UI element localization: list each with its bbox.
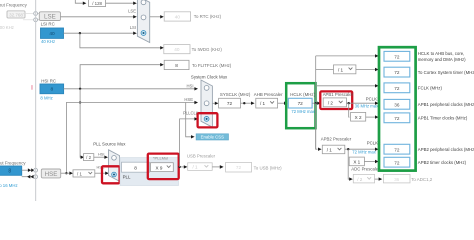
wire: AHB prescaler to HCLK — [278, 102, 288, 105]
node: APB1 timer clocks box 72 — [384, 113, 468, 123]
svg-text:To USB (MHz): To USB (MHz) — [254, 165, 283, 170]
svg-text:/ 2: / 2 — [328, 101, 334, 106]
node: PLL Source Mux label — [93, 141, 126, 146]
wire: PLLCLK up to system clock mux — [180, 111, 199, 167]
divider HSI /2 box — [84, 154, 94, 161]
svg-text:72: 72 — [227, 101, 233, 106]
wire: system clock mux output to SYSCLK — [212, 102, 218, 105]
node: LSI junction — [79, 32, 81, 34]
node: To ADC value box — [383, 174, 432, 183]
wire: HSI down to PLL prediv /2 — [80, 89, 84, 159]
svg-text:LSE: LSE — [128, 9, 136, 14]
node: PLLMul label — [153, 155, 168, 160]
svg-text:72: 72 — [394, 160, 400, 165]
svg-text:*PLLMul: *PLLMul — [153, 155, 168, 160]
wire: APB2 timer X1 branch and ADC branch — [348, 149, 353, 181]
oscillator LSE box — [38, 12, 61, 21]
svg-text:/ 1: / 1 — [327, 148, 333, 153]
node: To RTC value box — [164, 12, 221, 21]
mux: PLL Source Mux — [109, 150, 120, 182]
node: HSI junction — [79, 88, 81, 90]
svg-text:X 1: X 1 — [353, 160, 360, 165]
svg-text:ADC Prescaler: ADC Prescaler — [351, 167, 380, 172]
node: HSE input frequency value box 8 — [0, 166, 22, 175]
svg-text:X 2: X 2 — [355, 115, 362, 120]
svg-text:HSE: HSE — [184, 97, 193, 102]
node: PLL output junction — [178, 166, 180, 168]
svg-text:LSI RC: LSI RC — [41, 21, 55, 26]
wire: HSE to prediv /1 — [61, 172, 73, 175]
svg-text:72 MHz max: 72 MHz max — [352, 150, 376, 155]
divider PLLMul X9 dropdown — [151, 163, 174, 172]
divider HSE /1 dropdown — [73, 170, 95, 177]
svg-text:HSI RC: HSI RC — [41, 78, 56, 83]
node: APB2 timer clocks box 72 — [384, 157, 467, 167]
node: APB1 Prescaler label — [323, 92, 354, 97]
svg-text:/ 1: / 1 — [260, 101, 266, 106]
divider Cortex prescaler /1 dropdown — [334, 65, 356, 74]
node: To IWDG value box — [164, 45, 223, 54]
svg-text:8: 8 — [175, 63, 178, 68]
svg-text:SYSCLK (MHz): SYSCLK (MHz) — [220, 92, 251, 97]
wire: OSC32_OUT stub — [23, 19, 33, 21]
node: APB2 Prescaler label — [321, 137, 352, 142]
wire: chip boundary — [35, 0, 37, 201]
svg-text:To ADC1,2: To ADC1,2 — [411, 177, 433, 182]
wire: APB1 timer X2 branch — [348, 103, 351, 117]
svg-text:Input Frequency: Input Frequency — [0, 2, 28, 7]
wire: HSE divided feed to /128 — [75, 0, 86, 5]
node: LSE input frequency label — [0, 2, 28, 7]
svg-text:to 1000 KHz: to 1000 KHz — [0, 25, 14, 30]
divider ADC prescaler /2 dropdown disabled — [353, 174, 374, 183]
node: OSC32_IN pin — [34, 12, 38, 16]
svg-text:PLL Source Mux: PLL Source Mux — [93, 141, 126, 146]
node: HSE junction — [65, 172, 67, 174]
svg-text:HSE: HSE — [45, 171, 58, 178]
svg-text:memory and DMA (MHz): memory and DMA (MHz) — [418, 57, 466, 62]
wire: HSI to FLITFCLK — [80, 63, 164, 89]
oscillator HSI RC box 8 — [40, 84, 64, 94]
wire: PCLK2 row — [345, 140, 381, 154]
wire: HSE up to system clock mux — [66, 97, 198, 173]
wire: HCLK to AHB bus row — [316, 54, 379, 57]
divider APB1 prescaler /2 dropdown — [323, 98, 346, 107]
svg-text:72: 72 — [236, 165, 242, 170]
node: big green highlight around output clocks — [379, 47, 416, 170]
mux: RTC Clock Mux — [137, 0, 149, 43]
wire: USB prescaler to USB box — [212, 165, 223, 169]
component PLL panel — [120, 158, 179, 186]
node: To USB value box — [226, 162, 283, 172]
node: OSC32_OUT pin — [34, 18, 38, 22]
svg-text:Enable CSS: Enable CSS — [201, 135, 225, 140]
wire: LSI down to IWDG — [80, 33, 164, 49]
mux: System Clock Mux — [201, 80, 212, 127]
oscillator HSI RC label — [41, 78, 56, 83]
wire: LSI to RTC mux — [64, 25, 137, 35]
svg-text:LSI: LSI — [130, 25, 136, 30]
svg-text:To RTC (KHz): To RTC (KHz) — [194, 14, 222, 19]
svg-text:8: 8 — [8, 169, 11, 175]
svg-text:8: 8 — [50, 87, 53, 93]
wire: HSI /2 to PLL source mux — [94, 151, 108, 159]
wire: LSE to RTC mux — [61, 9, 137, 19]
node: To FLITFCLK value box — [164, 60, 232, 69]
node: APB2 peripheral clocks box 72 — [384, 144, 474, 154]
svg-text:APB2 peripheral clocks (MHz): APB2 peripheral clocks (MHz) — [418, 147, 474, 152]
node: green highlight around HCLK — [286, 83, 315, 128]
svg-text:APB1 Prescaler: APB1 Prescaler — [323, 92, 354, 97]
node: FCLK output box 72 — [384, 83, 442, 93]
divider USB prescaler /1 dropdown disabled — [188, 163, 213, 171]
wire: Cortex system timer row — [316, 68, 379, 71]
node: red highlight on PLLMul — [148, 154, 179, 180]
svg-text:8: 8 — [134, 165, 137, 170]
wire: X2 to APB1 timer box — [366, 115, 379, 118]
svg-text:40 KHz: 40 KHz — [41, 39, 55, 44]
divider APB2 prescaler /1 dropdown — [322, 145, 345, 154]
svg-text:PLL: PLL — [123, 174, 131, 179]
multiplier X2 box — [351, 112, 366, 121]
svg-text:APB2 Prescaler: APB2 Prescaler — [321, 137, 352, 142]
svg-text:To FLITFCLK (MHz): To FLITFCLK (MHz) — [192, 63, 232, 68]
svg-text:HCLK to AHB bus, core,: HCLK to AHB bus, core, — [418, 51, 465, 56]
divider /128 box — [89, 0, 106, 7]
svg-text:FCLK (MHz): FCLK (MHz) — [418, 85, 443, 90]
node: HSE input frequency label — [0, 160, 26, 165]
node: AHB Prescaler label — [254, 92, 283, 97]
oscillator LSI RC box 40 — [41, 28, 64, 38]
svg-text:72 MHz max: 72 MHz max — [291, 109, 315, 114]
wire: HSE prediv to PLL source mux — [95, 164, 109, 175]
svg-text:40: 40 — [49, 31, 55, 37]
svg-text:HSI: HSI — [187, 84, 194, 89]
wire: PCLK1 row — [347, 97, 380, 109]
node: ADC Prescaler label — [351, 167, 380, 172]
wire: HCLK output and distribution spine — [312, 56, 321, 149]
svg-text:8 MHz: 8 MHz — [40, 95, 52, 100]
svg-text:72: 72 — [394, 70, 400, 75]
svg-text:APB2 timer clocks (MHz): APB2 timer clocks (MHz) — [418, 160, 467, 165]
wire: HSE OSC_OUT with arrows — [22, 175, 34, 179]
svg-text:40: 40 — [175, 14, 181, 19]
svg-text:X 9: X 9 — [156, 166, 163, 171]
node: HSE range label — [0, 183, 18, 188]
svg-text:To Cortex System timer (MHz): To Cortex System timer (MHz) — [418, 70, 474, 75]
node: SYSCLK label and value box — [219, 92, 251, 108]
node: Enable CSS button — [196, 134, 228, 140]
svg-text:72: 72 — [394, 116, 400, 121]
svg-text:/ 2: / 2 — [86, 155, 91, 160]
node: APB1 peripheral clocks box 36 — [384, 99, 474, 109]
oscillator LSI RC label — [41, 21, 55, 26]
svg-text:/ 2: / 2 — [357, 177, 363, 182]
svg-text:System Clock Mux: System Clock Mux — [191, 75, 228, 80]
node: OSC_IN pin — [34, 168, 38, 172]
wire: HSE OSC_IN with arrows — [22, 168, 35, 172]
oscillator HSE box — [41, 169, 60, 178]
svg-text:APB1 peripheral clocks (MHz): APB1 peripheral clocks (MHz) — [418, 102, 474, 107]
svg-text:72: 72 — [394, 54, 400, 59]
svg-text:/ 1: / 1 — [338, 68, 344, 73]
wire: spine down to APB2 prescaler — [316, 103, 322, 151]
svg-text:LSE: LSE — [44, 13, 56, 20]
svg-text:HSI: HSI — [98, 151, 105, 156]
node: LSI frequency label 40 KHz — [41, 39, 55, 44]
svg-text:Input Frequency: Input Frequency — [0, 160, 26, 165]
svg-text:36: 36 — [394, 177, 400, 182]
node: LSE input frequency value box 32.768 — [7, 11, 25, 18]
node: Cortex system timer output box 72 — [384, 67, 474, 77]
wire: CSS tap to Enable CSS button — [186, 103, 195, 139]
svg-text:4 to 16 MHz: 4 to 16 MHz — [0, 183, 18, 188]
wire: HSI to system clock mux — [64, 84, 198, 91]
divider AHB prescaler /1 dropdown — [256, 98, 278, 108]
wire: X1 to APB2 timer box — [364, 160, 378, 163]
node: HCLK label, value box and max label — [288, 92, 316, 114]
node: pink marker on boundary — [31, 85, 33, 90]
node: LSE range label — [0, 25, 14, 30]
svg-text:HCLK (MHz): HCLK (MHz) — [290, 92, 315, 97]
node: red highlight around APB1 prescaler — [320, 91, 352, 109]
wire: ADC prescaler to ADC box — [375, 177, 383, 180]
wire: FCLK row — [316, 84, 379, 87]
svg-text:/ 1: / 1 — [193, 165, 198, 170]
svg-text:USB Prescaler: USB Prescaler — [187, 153, 216, 158]
svg-text:72: 72 — [298, 101, 304, 106]
svg-text:AHB Prescaler: AHB Prescaler — [254, 92, 283, 97]
svg-text:36: 36 — [394, 102, 400, 107]
node: red highlight on system clock mux PLLCLK input — [198, 113, 218, 127]
node: System Clock Mux label — [191, 75, 228, 80]
node: HSI frequency label 8 MHz — [40, 95, 52, 100]
node: OSC_OUT pin — [34, 175, 38, 179]
svg-text:72: 72 — [394, 147, 400, 152]
wire: PLL output to USB prescaler — [179, 165, 188, 168]
wire: /128 to RTC mux — [106, 2, 137, 5]
node: HCLK to AHB output box 72 — [384, 51, 466, 62]
svg-text:72: 72 — [394, 86, 400, 91]
svg-text:APB1 Timer clocks (MHz): APB1 Timer clocks (MHz) — [418, 116, 468, 121]
svg-text:To IWDG (KHz): To IWDG (KHz) — [192, 47, 223, 52]
wire: RTC mux output — [150, 15, 164, 18]
node: crossing junction HSI/HSE — [79, 101, 81, 103]
wire: OSC32_IN stub — [23, 13, 33, 15]
svg-text:/ 1: / 1 — [77, 172, 82, 177]
svg-text:/ 128: / 128 — [92, 1, 102, 6]
wire: SYSCLK to AHB prescaler — [241, 102, 255, 105]
svg-text:32.768: 32.768 — [9, 13, 23, 18]
svg-text:36 MHz max: 36 MHz max — [355, 104, 379, 109]
multiplier X1 box — [349, 157, 364, 166]
svg-text:40: 40 — [174, 47, 180, 52]
node: red highlight on PLL source mux HSE input — [102, 166, 120, 183]
node: USB Prescaler label — [187, 153, 216, 158]
